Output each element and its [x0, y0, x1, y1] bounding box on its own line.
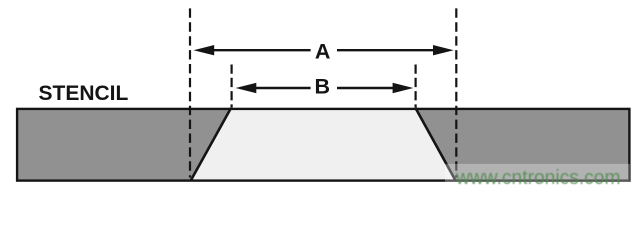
dashed extension line A-left — [189, 8, 191, 177]
arrowhead B left — [236, 83, 257, 93]
dimension arrow A shaft right — [337, 49, 436, 51]
aperture trapezoid — [191, 109, 456, 181]
svg-text:STENCIL: STENCIL — [39, 82, 129, 105]
stencil outline — [17, 109, 629, 181]
dashed extension line A-right — [455, 8, 457, 177]
dimension arrow B shaft left — [254, 87, 311, 89]
aperture left wall — [191, 108, 232, 181]
svg-text:A: A — [315, 40, 331, 64]
stencil body fill — [17, 109, 629, 181]
arrowhead B right — [393, 83, 414, 93]
svg-text:www.cntronics.com: www.cntronics.com — [455, 167, 620, 189]
arrowhead A left — [194, 45, 215, 55]
svg-text:B: B — [315, 75, 331, 99]
watermark strip — [445, 164, 630, 182]
dashed extension line B-right — [415, 65, 417, 108]
watermark text — [0, 0, 1, 1]
aperture right wall — [416, 108, 456, 181]
dimension arrow A shaft left — [212, 49, 311, 51]
arrowhead A right — [433, 45, 454, 55]
dimension arrow B shaft right — [337, 87, 393, 89]
dashed extension line B-left — [231, 65, 233, 108]
